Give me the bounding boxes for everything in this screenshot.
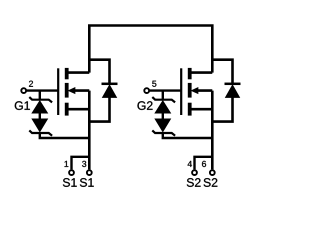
wire Q1 drain horizontal <box>67 71 90 74</box>
wire Q1 source vertical down to pin 3 <box>88 91 91 170</box>
wire S2 pin 4 branch <box>195 157 213 170</box>
pin number 3 <box>82 161 86 167</box>
pin number 5 <box>152 81 156 87</box>
terminal pin 2 (gate G1) <box>21 88 26 93</box>
zener Z1 (G1 ESD protection, cathode up) <box>29 97 52 113</box>
wire Q2 drain horizontal <box>190 71 213 74</box>
wire Q2 source vertical down to pin 6 <box>211 91 214 170</box>
wire Z2 cathode to source return <box>40 133 90 138</box>
pin number 6 <box>202 161 206 167</box>
wire zener branch from gate G2 <box>162 91 164 101</box>
zener Z4 (G2 ESD protection, cathode down) <box>152 119 175 136</box>
wire G2 gate lead <box>149 89 181 91</box>
wire S1 pin 1 branch <box>72 157 90 170</box>
wire common drain rail connecting Q1 and Q2 drains <box>89 26 212 73</box>
terminal pin 4 (S2) <box>192 170 197 175</box>
label S1 (pin 1) <box>63 178 77 187</box>
label G2 <box>137 101 152 110</box>
pin number 1 <box>65 161 69 167</box>
wire Q2 source horizontal <box>190 108 213 111</box>
terminal pin 1 (S1) <box>69 170 74 175</box>
terminal pin 3 (S1) <box>87 170 92 175</box>
transistor Q2 (N-channel MOSFET) <box>181 68 198 116</box>
wire Q1 source horizontal <box>67 108 90 111</box>
wire Z4 cathode to source return <box>163 133 213 138</box>
wire between zener Z1 and Z2 anodes <box>39 113 41 120</box>
wire D1 anode to Q1 source <box>89 97 109 122</box>
wire between zener Z3 and Z4 anodes <box>162 113 164 120</box>
transistor Q1 (N-channel MOSFET) <box>58 68 75 116</box>
pin number 4 <box>188 161 192 167</box>
wire zener branch from gate G1 <box>39 91 41 101</box>
wire Q1 drain to body diode D1 cathode <box>89 60 109 84</box>
label S2 (pin 4) <box>187 178 201 187</box>
diode D2 (Q2 body diode) <box>225 84 241 98</box>
zener Z3 (G2 ESD protection, cathode up) <box>152 97 175 113</box>
pin number 2 <box>29 81 33 87</box>
label S1 (pin 3) <box>80 178 94 187</box>
diode D1 (Q1 body diode) <box>102 84 118 98</box>
zener Z2 (G1 ESD protection, cathode down) <box>29 119 52 136</box>
wire D2 anode to Q2 source <box>212 97 232 122</box>
wire G1 gate lead <box>26 89 58 91</box>
wire Q2 drain to body diode D2 cathode <box>212 60 232 84</box>
label S2 (pin 6) <box>204 178 218 187</box>
terminal pin 5 (gate G2) <box>144 88 149 93</box>
wire Q1 body to source <box>73 89 90 92</box>
label G1 <box>15 101 30 110</box>
terminal pin 6 (S2) <box>210 170 215 175</box>
wire Q2 body to source <box>196 89 213 92</box>
